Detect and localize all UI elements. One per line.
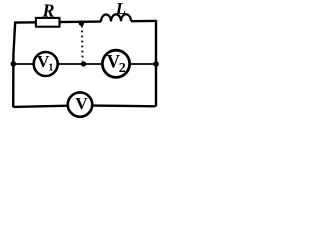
wire: bottom side: [13, 105, 155, 107]
wire: left side: [13, 22, 15, 108]
node: junction dot between V1 and V2: [81, 61, 86, 66]
svg-text:1: 1: [48, 63, 53, 74]
wire: middle row horizontal: [13, 63, 156, 65]
node: junction dot on right side: [153, 61, 159, 67]
node: junction dot on left side: [11, 61, 17, 67]
voltmeter V1: [34, 52, 58, 76]
svg-text:R: R: [41, 0, 54, 20]
inductor L: [101, 14, 131, 21]
svg-text:V: V: [75, 94, 88, 113]
svg-text:2: 2: [119, 61, 126, 76]
voltmeter V: [68, 92, 92, 116]
wire: right side: [155, 20, 157, 107]
wire: dotted vertical link between R-L node and V1-V2 node: [81, 26, 84, 62]
wire: top side, left corner to inductor: [15, 22, 101, 23]
wire: top side, inductor to right corner: [131, 20, 156, 23]
node: junction dot on top wire between R and L: [79, 21, 84, 26]
voltmeter V2: [102, 50, 129, 77]
svg-text:L: L: [115, 0, 126, 18]
resistor R: [36, 18, 60, 27]
